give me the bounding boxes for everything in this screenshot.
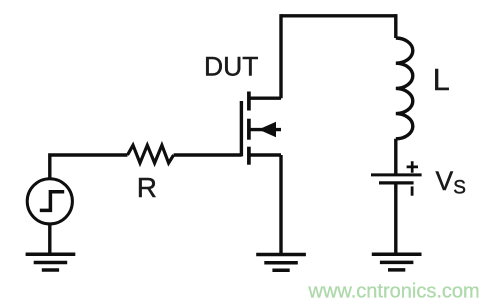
step waveform symbol — [40, 192, 64, 211]
svg-text:VS: VS — [436, 166, 466, 198]
wire top right drop to inductor — [394, 14, 397, 38]
wire source circle to ground — [48, 224, 51, 253]
mosfet channel dash middle — [247, 119, 251, 140]
mosfet gate bar — [240, 101, 243, 156]
ground center — [256, 255, 306, 271]
wire top rail — [281, 14, 396, 17]
mosfet channel dash bottom — [247, 147, 251, 165]
ground left — [26, 254, 76, 270]
battery bottom plate — [379, 181, 414, 184]
mosfet source lead — [249, 153, 281, 156]
svg-text:R: R — [137, 172, 157, 203]
svg-text:www.cntronics.com: www.cntronics.com — [308, 281, 480, 303]
svg-text:DUT: DUT — [204, 51, 258, 81]
mosfet body arrow — [259, 122, 277, 137]
ground right — [372, 254, 422, 270]
wire mosfet source down to ground — [279, 155, 282, 253]
wire inductor to battery — [394, 139, 397, 174]
wire drain to top rail — [279, 14, 282, 98]
battery top plate — [371, 173, 422, 176]
pulse source V1 circle — [27, 179, 72, 224]
mosfet channel dash top — [247, 92, 251, 111]
resistor R — [128, 145, 174, 163]
wire source top to resistor — [50, 155, 128, 179]
mosfet body lead — [249, 128, 281, 131]
battery minus tick — [411, 186, 414, 195]
svg-text:L: L — [433, 63, 450, 97]
mosfet drain lead — [249, 96, 281, 99]
wire battery to ground — [394, 185, 397, 253]
battery plus sign — [407, 161, 418, 173]
wire resistor to gate — [174, 153, 242, 156]
inductor L coil — [396, 38, 413, 139]
